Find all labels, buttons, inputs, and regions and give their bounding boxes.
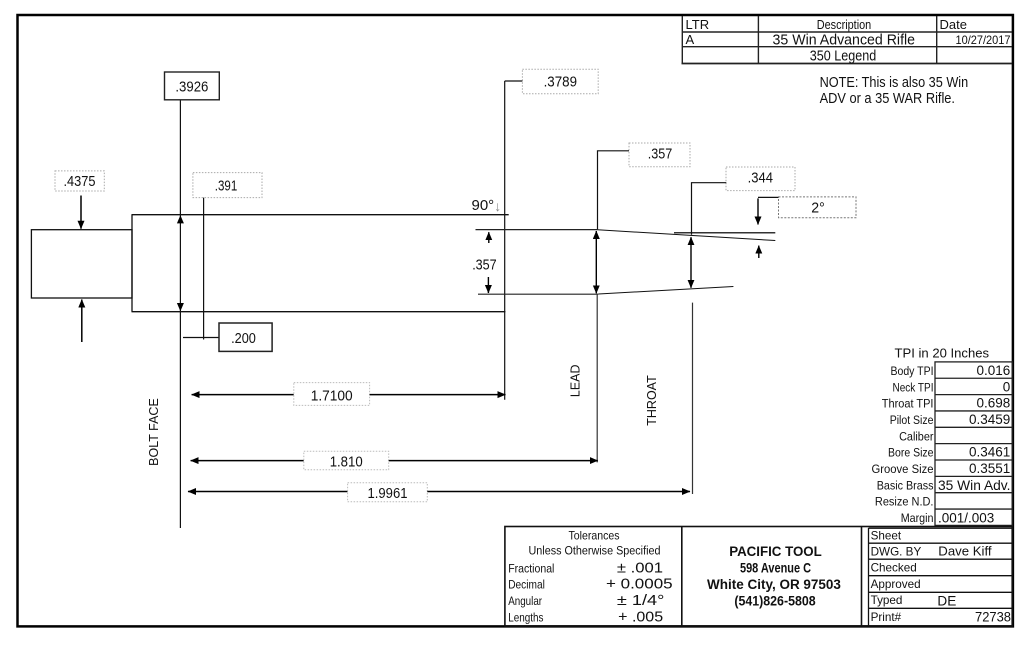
svg-text:± 1/4°: ± 1/4° (617, 592, 665, 609)
svg-text:THROAT: THROAT (645, 375, 659, 426)
dimension box .357 (629, 143, 690, 167)
svg-text:.4375: .4375 (64, 174, 96, 190)
svg-text:Description: Description (817, 18, 872, 32)
svg-text:Margin: Margin (901, 511, 934, 525)
svg-text:0: 0 (1003, 379, 1011, 394)
svg-text:.3789: .3789 (544, 74, 577, 90)
svg-text:Sheet: Sheet (871, 530, 902, 543)
svg-text:Groove Size: Groove Size (872, 462, 934, 476)
svg-text:.344: .344 (748, 170, 773, 186)
svg-text:ADV or a 35 WAR Rifle.: ADV or a 35 WAR Rifle. (820, 90, 955, 107)
tpi row values (969, 363, 1010, 476)
lead line (596, 294, 598, 462)
svg-text:72738: 72738 (975, 609, 1011, 625)
svg-text:Decimal: Decimal (508, 578, 545, 592)
title block right labels (871, 530, 922, 624)
dimension box .200 (219, 323, 272, 351)
dimension box 2 degrees (779, 197, 857, 218)
dimension box .344 (726, 167, 795, 191)
svg-text:Lengths: Lengths (508, 610, 543, 624)
svg-text:Bore Size: Bore Size (888, 446, 934, 460)
tpi table value grid (935, 362, 1012, 526)
dimension box 1.810 (304, 451, 389, 470)
svg-text:Checked: Checked (871, 562, 917, 575)
svg-text:35 Win Adv.: 35 Win Adv. (938, 478, 1011, 493)
.357 inner arrow down (487, 277, 489, 293)
revision row A (686, 32, 1011, 49)
dimension box .3926 (165, 72, 220, 100)
revision table grid (682, 16, 1013, 64)
.391 leader line (203, 198, 205, 340)
svg-text:(541)826-5808: (541)826-5808 (734, 593, 815, 609)
bolt face line with .3926 dimension arrows (179, 100, 181, 528)
svg-text:Fractional: Fractional (508, 561, 554, 575)
svg-text:0.3459: 0.3459 (969, 412, 1010, 427)
title block right rows grid (869, 528, 1013, 626)
svg-text:1.7100: 1.7100 (311, 389, 353, 405)
svg-text:10/27/2017: 10/27/2017 (956, 33, 1011, 47)
.344 leader polyline (692, 183, 727, 235)
svg-text:598 Avenue C: 598 Avenue C (740, 561, 811, 577)
.4375 arrow up (81, 300, 83, 343)
svg-text:Throat TPI: Throat TPI (882, 397, 934, 411)
2 degree leader (758, 196, 779, 198)
.357 leader polyline (598, 151, 630, 230)
dimension 1.810 line right (389, 460, 598, 462)
svg-text:.200: .200 (231, 331, 256, 347)
svg-text:White City, OR 97503: White City, OR 97503 (707, 577, 841, 593)
case mouth line (504, 81, 506, 400)
lead taper top line (598, 230, 776, 241)
svg-text:TPI in 20 Inches: TPI in 20 Inches (895, 347, 990, 361)
svg-text:.001/.003: .001/.003 (938, 510, 994, 525)
svg-text:.357: .357 (648, 147, 673, 163)
svg-text:+ 0.0005: + 0.0005 (606, 576, 673, 593)
svg-text:PACIFIC TOOL: PACIFIC TOOL (729, 544, 822, 560)
svg-text:.3926: .3926 (175, 80, 208, 96)
svg-text:DWG. BY: DWG. BY (871, 546, 922, 559)
svg-text:2°: 2° (811, 200, 825, 217)
title block outer (505, 527, 1012, 627)
svg-text:35 Win Advanced Rifle: 35 Win Advanced Rifle (773, 33, 916, 49)
.357 inner arrow up (488, 232, 490, 243)
svg-text:Date: Date (940, 17, 967, 32)
dimension 1.9961 line right (427, 491, 690, 493)
lead taper bottom line (598, 287, 733, 295)
svg-text:Body TPI: Body TPI (891, 364, 934, 378)
svg-text:Typed: Typed (871, 594, 903, 607)
svg-text:.391: .391 (215, 179, 238, 195)
svg-text:90°↓: 90°↓ (472, 197, 502, 214)
.3789 leader (505, 80, 523, 82)
svg-text:0.698: 0.698 (977, 396, 1011, 411)
dimension box 1.7100 (294, 383, 370, 406)
tpi row labels (872, 364, 934, 525)
svg-text:+ .005: + .005 (618, 608, 663, 625)
dimension 1.7100 line right (370, 394, 506, 396)
svg-text:Angular: Angular (508, 594, 542, 608)
dimension 1.7100 line left (192, 394, 294, 396)
throat line (692, 303, 694, 494)
.4375 arrow down (80, 196, 82, 229)
svg-text:NOTE: This is also 35 Win: NOTE: This is also 35 Win (820, 74, 969, 91)
freebore bottom line (478, 293, 598, 295)
svg-text:DE: DE (937, 593, 956, 608)
bore line (674, 232, 775, 234)
svg-text:LTR: LTR (686, 17, 710, 32)
svg-text:BOLT FACE: BOLT FACE (147, 398, 161, 466)
svg-text:Dave Kiff: Dave Kiff (938, 543, 992, 558)
chamber body (132, 215, 509, 312)
svg-text:0.016: 0.016 (977, 363, 1011, 378)
dimension 1.810 line left (191, 460, 304, 462)
svg-text:Resize N.D.: Resize N.D. (875, 495, 934, 509)
svg-text:350 Legend: 350 Legend (810, 48, 877, 64)
svg-text:.357: .357 (472, 257, 497, 273)
.200 leader line (183, 337, 219, 339)
pilot (31, 230, 132, 298)
svg-text:Print#: Print# (871, 611, 902, 624)
svg-text:LEAD: LEAD (568, 364, 582, 397)
svg-text:0.3551: 0.3551 (969, 461, 1010, 476)
svg-text:Neck TPI: Neck TPI (893, 380, 934, 394)
dimension box 1.9961 (348, 483, 428, 502)
svg-text:Approved: Approved (871, 578, 921, 591)
.344 dimension double arrow (690, 237, 692, 288)
dimension box .3789 (522, 69, 598, 94)
svg-text:± .001: ± .001 (617, 560, 663, 577)
dimension 1.9961 line left (188, 491, 348, 493)
svg-text:1.9961: 1.9961 (368, 486, 408, 502)
svg-text:0.3461: 0.3461 (969, 445, 1010, 460)
title block right values (937, 543, 1011, 624)
svg-text:Tolerances: Tolerances (569, 529, 620, 543)
revision table header row (686, 17, 967, 32)
svg-text:Caliber: Caliber (899, 429, 933, 443)
freebore top line (476, 229, 598, 231)
2 degree arrow up (758, 246, 760, 258)
svg-text:A: A (686, 32, 695, 47)
dimension box .4375 (55, 171, 104, 191)
2 degree arrow down (757, 198, 759, 224)
dimension box .391 (193, 173, 262, 198)
tolerances cell (508, 529, 672, 626)
svg-text:Unless Otherwise Specified: Unless Otherwise Specified (529, 544, 661, 558)
svg-text:1.810: 1.810 (330, 455, 363, 471)
svg-text:Pilot Size: Pilot Size (890, 413, 934, 427)
svg-text:Basic Brass: Basic Brass (877, 478, 934, 492)
address cell (707, 544, 841, 609)
note text (820, 74, 969, 107)
.357 dimension double arrow (595, 231, 597, 293)
